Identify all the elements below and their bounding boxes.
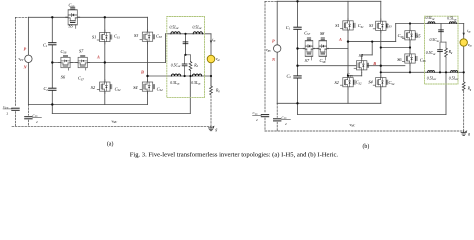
node: vac bottom tap (b) bbox=[463, 71, 465, 73]
svg-text:vPV: vPV bbox=[19, 57, 24, 62]
inductor 0.5Lac top-right (a) bbox=[193, 32, 202, 34]
node: bus midpoint (a) bbox=[51, 61, 53, 63]
svg-text:vPV: vPV bbox=[266, 48, 271, 53]
svg-text:P: P bbox=[272, 39, 275, 44]
node: shunt split (a) bbox=[184, 54, 186, 56]
svg-text:A: A bbox=[96, 55, 100, 60]
wire: midpoint branch S7 S8 (b) bbox=[298, 48, 349, 50]
iac current arrow (a) bbox=[210, 41, 212, 44]
svg-text:0.5Cac: 0.5Cac bbox=[430, 38, 441, 43]
svg-text:g: g bbox=[216, 128, 218, 132]
svg-text:0.5Lac: 0.5Lac bbox=[449, 76, 459, 81]
wire: S1 S2 leg (b) bbox=[347, 1, 349, 103]
svg-text:P: P bbox=[24, 47, 27, 52]
svg-text:S5: S5 bbox=[416, 34, 421, 39]
mosfet S2 (b) bbox=[340, 75, 355, 89]
parasitic capacitor CPV/2 left (b) bbox=[261, 115, 268, 117]
wire: A rail up to filter line (b) bbox=[395, 24, 397, 42]
svg-text:S4: S4 bbox=[368, 79, 373, 84]
capacitor C2 (a) bbox=[49, 88, 56, 90]
capacitor C1 (b) bbox=[294, 27, 301, 29]
green dashed filter box (b) bbox=[425, 16, 459, 84]
svg-text:CS1: CS1 bbox=[358, 23, 364, 29]
text labels circuit (a) bbox=[3, 3, 221, 132]
node: S1 leg top rail junction (a) bbox=[104, 16, 106, 18]
mosfet S1 (a) bbox=[97, 30, 112, 44]
label CPV/2 right (b) bbox=[282, 115, 288, 126]
node: bypass mid tap (b) bbox=[409, 46, 411, 48]
node: bypass top tap (b) bbox=[409, 22, 411, 24]
svg-text:vac: vac bbox=[216, 57, 221, 62]
svg-text:CS6: CS6 bbox=[61, 49, 67, 55]
svg-text:0.5Lac: 0.5Lac bbox=[427, 76, 437, 81]
ground symbol (a) bbox=[208, 126, 214, 131]
node: filter top tap (a) bbox=[184, 33, 186, 35]
node: cap bottom tap (a) bbox=[184, 75, 186, 77]
node: A rail jog tap (b) bbox=[371, 41, 373, 43]
dashed Rg to ground lead (a) bbox=[210, 96, 212, 126]
svg-text:0.5Lac: 0.5Lac bbox=[170, 81, 180, 86]
svg-text:S1: S1 bbox=[92, 34, 96, 39]
svg-text:CS6: CS6 bbox=[398, 33, 404, 39]
svg-text:0.5Cac: 0.5Cac bbox=[426, 51, 437, 56]
iac current arrow (b) bbox=[463, 33, 465, 36]
wire: midpoint branch to node A and filter (a) bbox=[52, 62, 165, 64]
damping resistor Rd (a) bbox=[189, 62, 192, 71]
svg-text:0.5Lac: 0.5Lac bbox=[426, 16, 436, 21]
wire: grid branch (a) bbox=[210, 34, 212, 55]
svg-text:A: A bbox=[338, 37, 342, 42]
node: bus top junction (b) bbox=[296, 0, 298, 2]
wire: dc bus (a) bbox=[51, 17, 53, 42]
grid resistor Rg (b) bbox=[462, 82, 465, 91]
mosfet S1 (b) bbox=[340, 18, 355, 32]
mosfet S6 bypass bottom (b) bbox=[402, 52, 417, 66]
capacitor C1 (a) bbox=[49, 43, 56, 45]
wire: return measurement line (a) bbox=[52, 113, 190, 115]
svg-text:S8: S8 bbox=[320, 31, 325, 36]
svg-text:S4: S4 bbox=[133, 85, 138, 90]
wire: Rg lead (a) bbox=[210, 76, 212, 86]
svg-text:Rd: Rd bbox=[448, 50, 453, 55]
parasitic capacitor CPV/2 right (b) bbox=[274, 119, 281, 121]
svg-text:2: 2 bbox=[256, 118, 258, 122]
mosfet S2 (a) bbox=[97, 80, 112, 94]
node B junction (b) bbox=[380, 65, 382, 67]
svg-text:CS7: CS7 bbox=[78, 76, 84, 82]
wire: clamp line to node B (b) bbox=[298, 65, 405, 67]
wire: bypass leg S5 S6 (b) bbox=[409, 24, 411, 73]
mosfet S4 (a) bbox=[140, 80, 155, 94]
svg-text:CS5: CS5 bbox=[69, 3, 75, 9]
node: bus bottom junction (a) bbox=[51, 103, 53, 105]
node: bottom rail B tap (b) bbox=[380, 71, 382, 73]
dashed ground line (b) bbox=[265, 130, 464, 132]
svg-text:0.5Lac: 0.5Lac bbox=[170, 25, 180, 30]
svg-text:CS4: CS4 bbox=[157, 86, 163, 92]
wire: filter shunt (b) bbox=[440, 24, 442, 43]
svg-text:B: B bbox=[140, 69, 144, 74]
fraction bars CPV/2 (b) bbox=[253, 114, 262, 116]
inductor 0.5Lac top-right (b) bbox=[449, 22, 456, 24]
svg-text:B: B bbox=[372, 61, 376, 66]
wire: dc bus (b) bbox=[297, 1, 299, 26]
svg-text:(a): (a) bbox=[107, 141, 114, 148]
text labels circuit (b) bbox=[253, 16, 473, 136]
svg-text:(b): (b) bbox=[363, 143, 370, 150]
svg-text:0.5Cac: 0.5Cac bbox=[171, 63, 182, 68]
filter capacitor 0.5Cac (b) bbox=[438, 50, 443, 52]
svg-text:N: N bbox=[23, 65, 28, 70]
dashed lead to CPV2 cap (a) bbox=[27, 105, 29, 116]
node: vac bottom tap (a) bbox=[210, 75, 212, 77]
svg-text:CS8: CS8 bbox=[320, 58, 326, 64]
wire: S1 S2 leg (a) bbox=[104, 17, 106, 104]
svg-text:C1: C1 bbox=[43, 42, 48, 48]
svg-text:C2: C2 bbox=[287, 73, 292, 79]
svg-text:Fig. 3. Five-level transformer: Fig. 3. Five-level transformerless inver… bbox=[130, 152, 339, 159]
svg-text:S6: S6 bbox=[397, 57, 402, 62]
wire: grid branch (b) bbox=[463, 24, 465, 39]
wire: filter bottom rail from node B (a) bbox=[148, 75, 212, 77]
svg-text:CS3: CS3 bbox=[386, 23, 392, 29]
svg-text:S6: S6 bbox=[61, 75, 66, 80]
dashed Rg to ground lead (b) bbox=[463, 91, 465, 131]
inductor 0.5Lac top-left (b) bbox=[428, 22, 435, 24]
svg-text:CS3: CS3 bbox=[156, 33, 162, 39]
mosfet S3 (a) bbox=[140, 30, 155, 44]
mosfet S5 bypass top (b) bbox=[402, 28, 417, 42]
node A junction (b) bbox=[347, 40, 349, 42]
inductor 0.5Lac bottom-left (a) bbox=[171, 74, 180, 76]
wire: node A rail (b) bbox=[348, 41, 396, 43]
dashed ground line (a) bbox=[12, 125, 211, 127]
wire: S3 S4 leg (a) bbox=[147, 17, 149, 104]
svg-text:C2: C2 bbox=[44, 86, 49, 92]
svg-text:S7: S7 bbox=[79, 48, 84, 53]
wire: return measurement line (b) bbox=[298, 114, 447, 116]
green dashed filter box (a) bbox=[167, 17, 205, 98]
dashed PV panel outline (a) bbox=[12, 17, 211, 126]
node: bus midpoint upper (b) bbox=[296, 47, 298, 49]
capacitor C2 (b) bbox=[294, 76, 301, 78]
svg-text:CS1: CS1 bbox=[114, 34, 120, 40]
node: rd bottom tap (b) bbox=[445, 71, 447, 73]
grid voltage source vac circle (a) bbox=[207, 55, 215, 63]
node B junction (a) bbox=[146, 75, 148, 77]
svg-text:Rg: Rg bbox=[467, 87, 472, 92]
svg-text:vMC: vMC bbox=[112, 119, 118, 124]
svg-text:0.5Lac: 0.5Lac bbox=[191, 81, 201, 86]
svg-text:vMC: vMC bbox=[350, 123, 356, 128]
svg-text:S1: S1 bbox=[335, 23, 339, 28]
node: cap bottom tap (b) bbox=[439, 71, 441, 73]
wire: S3 S4 leg (b) bbox=[380, 1, 382, 103]
wire: filter bottom rail (b) bbox=[381, 71, 464, 73]
mosfet S4 (b) bbox=[373, 75, 388, 89]
svg-text:CS6: CS6 bbox=[420, 57, 426, 63]
wire: top rail (a) bbox=[28, 16, 147, 18]
PV source circle (b) bbox=[274, 45, 281, 52]
junction dots (a) bbox=[51, 16, 212, 106]
damping resistor Rd (b) bbox=[445, 48, 448, 57]
node: S3 leg clamp tap (b) bbox=[380, 46, 382, 48]
inductor 0.5Lac bottom-left (b) bbox=[428, 71, 435, 73]
node A junction (a) bbox=[104, 61, 106, 63]
label CPV/2 right (a) bbox=[33, 113, 39, 124]
wire: jog to S5 mid (b) bbox=[371, 42, 373, 55]
svg-text:CS5: CS5 bbox=[347, 72, 353, 78]
inductor 0.5Lac top-left (a) bbox=[171, 32, 180, 34]
svg-text:C1: C1 bbox=[286, 25, 291, 31]
svg-text:S3: S3 bbox=[369, 23, 373, 28]
svg-text:S3: S3 bbox=[134, 33, 138, 38]
parasitic capacitor CPV/2 right (a) bbox=[25, 117, 32, 119]
svg-text:CS7: CS7 bbox=[304, 30, 310, 36]
PV source circle (a) bbox=[25, 55, 32, 62]
label CPV/2 left (a) bbox=[3, 105, 9, 116]
mosfet S8 (b) bbox=[317, 38, 329, 60]
svg-text:CS2: CS2 bbox=[115, 86, 121, 92]
mosfet S5 (a) horizontal in top rail bbox=[66, 7, 80, 28]
wire: filter shunt branch (a) bbox=[185, 34, 187, 55]
snubber style capacitor on shunt (a) bbox=[183, 42, 188, 44]
mosfet S3 (b) bbox=[373, 19, 388, 33]
node: bus top junction (a) bbox=[51, 16, 53, 18]
junction dots (b) bbox=[296, 0, 465, 104]
grid resistor Rg (a) bbox=[210, 86, 213, 95]
svg-text:2: 2 bbox=[36, 120, 38, 124]
mosfet S5 mid (b) bbox=[354, 58, 369, 72]
grid voltage source vac circle (b) bbox=[460, 39, 467, 46]
svg-text:2: 2 bbox=[285, 122, 287, 126]
mosfet S6 (a) bbox=[59, 56, 73, 71]
svg-text:iac: iac bbox=[212, 38, 216, 43]
wire: clamp to bypass midpoint (b) bbox=[381, 47, 410, 49]
svg-text:Rd: Rd bbox=[193, 63, 198, 68]
svg-text:Rg: Rg bbox=[215, 88, 220, 93]
inductor 0.5Lac bottom-right (b) bbox=[451, 71, 458, 73]
wire: N rail (a) bbox=[28, 104, 147, 106]
mosfet S7 (b) bbox=[303, 38, 315, 60]
wire: top rail (b) bbox=[277, 0, 381, 2]
node: bus midpoint lower (b) bbox=[296, 65, 298, 67]
svg-text:S2: S2 bbox=[335, 80, 340, 85]
inductor 0.5Lac bottom-right (a) bbox=[192, 74, 201, 76]
wire: N rail (b) bbox=[277, 102, 381, 104]
snubber style capacitor on shunt (b) bbox=[439, 30, 444, 32]
parasitic capacitor CPV/2 left (a) bbox=[12, 108, 19, 110]
svg-text:S7: S7 bbox=[305, 58, 310, 63]
svg-text:iac: iac bbox=[467, 29, 471, 34]
dashed PV panel outline (b) bbox=[265, 1, 464, 131]
svg-text:S2: S2 bbox=[91, 85, 96, 90]
wire: filter top rail (a) bbox=[166, 33, 212, 35]
node: S2 top tap (b) bbox=[347, 75, 349, 77]
wire: PV positive leg (a) bbox=[27, 17, 29, 104]
svg-text:0.5Lac: 0.5Lac bbox=[447, 17, 457, 22]
node: rd bottom tap (a) bbox=[189, 75, 191, 77]
svg-text:CS2: CS2 bbox=[356, 80, 362, 86]
dashed lead to CPV2 cap (b) bbox=[276, 103, 278, 117]
svg-text:0.5Lac: 0.5Lac bbox=[193, 25, 203, 30]
svg-text:CS4: CS4 bbox=[389, 80, 395, 86]
ground symbol (b) bbox=[461, 130, 467, 135]
svg-text:2: 2 bbox=[7, 112, 9, 116]
fraction bars CPV/2 (a) bbox=[3, 108, 12, 110]
label CPV/2 left (b) bbox=[253, 111, 259, 122]
filter capacitor 0.5Cac (a) bbox=[182, 64, 187, 66]
svg-text:N: N bbox=[271, 57, 276, 62]
mosfet S7 (a) bbox=[76, 56, 90, 71]
svg-text:vac: vac bbox=[468, 43, 473, 48]
wire: PV positive leg (b) bbox=[276, 1, 278, 103]
node: bus bottom junction (b) bbox=[296, 102, 298, 104]
svg-text:g: g bbox=[468, 132, 470, 136]
node: bypass bottom tap (b) bbox=[409, 71, 411, 73]
